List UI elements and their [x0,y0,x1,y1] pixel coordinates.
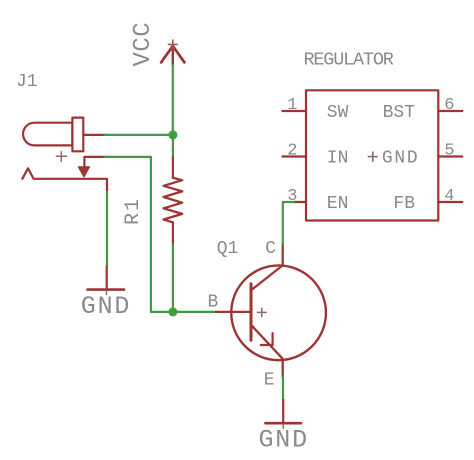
svg-text:E: E [264,371,275,391]
IC REGULATOR [283,50,463,221]
svg-text:C: C [265,239,276,259]
transistor Q1 [208,239,326,391]
resistor R1 [122,158,182,245]
pin 4 FB [438,201,462,203]
svg-text:5: 5 [444,141,454,160]
svg-text:GND: GND [81,292,131,321]
wire R1 to node [172,245,174,312]
pin 2 IN [283,155,307,157]
svg-text:1: 1 [287,96,297,115]
power VCC [130,22,184,67]
wire base [173,311,217,313]
svg-text:FB: FB [393,194,415,214]
wire collector to EN [283,202,297,244]
svg-text:4: 4 [444,187,454,206]
pin 1 SW [283,110,307,112]
svg-text:GND: GND [382,149,420,169]
pin 6 BST [438,110,462,112]
svg-text:B: B [208,293,219,313]
svg-text:GND: GND [259,426,309,455]
wire node to R1 [172,135,174,158]
wire J1 tip to node [105,134,174,136]
pin 5 GND [438,155,462,157]
wire emitter to ground [282,377,284,400]
ground GND bottom [259,400,309,455]
node junction 2 [168,307,177,316]
svg-text:2: 2 [287,141,297,160]
svg-text:R1: R1 [122,197,145,225]
svg-text:J1: J1 [16,72,38,92]
wire J1 switch to ground [106,192,108,267]
svg-text:6: 6 [444,96,454,115]
svg-text:REGULATOR: REGULATOR [304,50,394,71]
svg-text:SW: SW [327,103,349,123]
wire VCC to node [172,65,174,136]
svg-text:VCC: VCC [130,22,157,67]
wire J1 ring to base node [105,157,172,312]
connector J1 [16,72,107,193]
svg-text:IN: IN [327,149,349,169]
origin cross [368,156,377,158]
node junction 1 [168,130,177,139]
svg-text:EN: EN [327,194,349,214]
ground GND left [81,267,131,322]
pin 3 EN [296,201,307,203]
svg-text:3: 3 [287,187,297,206]
svg-text:Q1: Q1 [217,239,239,259]
svg-text:BST: BST [383,103,416,123]
